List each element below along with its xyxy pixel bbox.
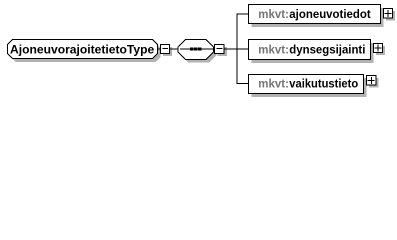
- svg-text:mkvt:: mkvt:: [258, 79, 289, 91]
- element mkvt:dynsegsijainti box: [249, 40, 371, 60]
- svg-text:mkvt:: mkvt:: [258, 44, 289, 56]
- element mkvt:vaikutustieto box: [249, 75, 364, 94]
- minus glyph of sequence square: [217, 48, 223, 50]
- expand plus square of dynsegsijainti shadow: [376, 46, 385, 55]
- svg-text:dynsegsijainti: dynsegsijainti: [289, 44, 365, 56]
- wire stub from complexType box to its minus square: [158, 14, 249, 85]
- collapse minus square of complexType shadow: [163, 47, 172, 56]
- element mkvt:ajoneuvotiedot box: [249, 5, 381, 24]
- collapse minus square of complexType: [161, 45, 170, 54]
- wire trunk vertical: [236, 14, 238, 85]
- element mkvt:ajoneuvotiedot shadow: [252, 8, 384, 27]
- element mkvt:vaikutustieto shadow: [252, 78, 367, 97]
- wire minus square to sequence octagon: [170, 48, 179, 50]
- element mkvt:dynsegsijainti shadow: [252, 43, 374, 63]
- sequence compositor octagon: [178, 40, 213, 60]
- sequence minus square: [215, 45, 225, 54]
- sequence centre line: [180, 48, 213, 50]
- expand plus square of dynsegsijainti: [374, 44, 383, 53]
- svg-text:AjoneuvorajoitetietoType: AjoneuvorajoitetietoType: [10, 44, 154, 56]
- svg-text:vaikutustieto: vaikutustieto: [289, 79, 358, 91]
- minus glyph of complexType square: [162, 48, 168, 50]
- expand plus square of vaikutustieto: [367, 76, 377, 86]
- complexType AjoneuvorajoitetietoType shadow: [11, 43, 161, 62]
- expand plus square of ajoneuvotiedot: [384, 9, 393, 19]
- sequence dots: [190, 48, 201, 51]
- sequence compositor shadow: [181, 43, 216, 63]
- wire row1 branch: [237, 13, 249, 15]
- plus glyph of ajoneuvotiedot square: [384, 10, 391, 17]
- svg-text:ajoneuvotiedot: ajoneuvotiedot: [289, 9, 371, 21]
- expand plus square of vaikutustieto shadow: [369, 78, 379, 88]
- wire row3 branch: [237, 83, 249, 85]
- svg-text:mkvt:: mkvt:: [258, 9, 289, 21]
- expand plus square of ajoneuvotiedot shadow: [386, 11, 395, 21]
- complexType AjoneuvorajoitetietoType box: [8, 40, 158, 59]
- sequence minus square shadow: [218, 47, 228, 56]
- plus glyph of vaikutustieto square: [368, 77, 375, 84]
- plus glyph of dynsegsijainti square: [374, 45, 381, 52]
- wire sequence square to trunk and row2 branch: [224, 48, 249, 50]
